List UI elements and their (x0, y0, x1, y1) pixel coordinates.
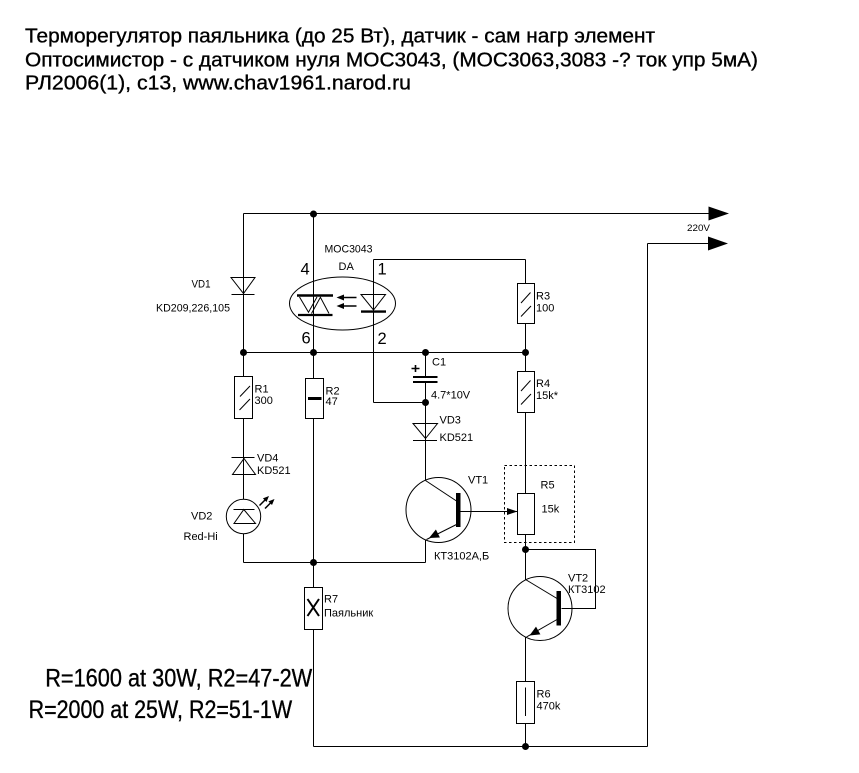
svg-text:РЛ2006(1), с13, www.chav1961.n: РЛ2006(1), с13, www.chav1961.narod.ru (25, 73, 411, 95)
svg-text:Паяльник: Паяльник (324, 608, 373, 620)
svg-text:470k: 470k (537, 701, 561, 713)
svg-text:R5: R5 (541, 480, 555, 492)
svg-text:DA: DA (339, 261, 355, 273)
svg-text:15k: 15k (542, 504, 560, 516)
svg-text:VD1: VD1 (192, 279, 211, 291)
svg-text:R=1600 at 30W, R2=47-2W: R=1600 at 30W, R2=47-2W (45, 665, 312, 693)
svg-text:Red-Hi: Red-Hi (184, 531, 218, 543)
svg-text:Оптосимистор - с датчиком нуля: Оптосимистор - с датчиком нуля MOC3043, … (25, 50, 758, 72)
svg-text:R1: R1 (255, 384, 269, 396)
svg-text:R4: R4 (536, 378, 550, 390)
svg-text:15k*: 15k* (536, 390, 559, 402)
svg-text:КТ3102: КТ3102 (568, 584, 606, 596)
svg-text:R6: R6 (537, 689, 551, 701)
svg-text:R7: R7 (324, 594, 338, 606)
svg-text:47: 47 (326, 396, 338, 408)
svg-text:VT1: VT1 (468, 475, 488, 487)
svg-text:6: 6 (302, 330, 311, 348)
svg-text:VD2: VD2 (191, 511, 212, 523)
svg-text:VD3: VD3 (440, 415, 461, 427)
svg-text:КТ3102А,Б: КТ3102А,Б (434, 551, 489, 563)
svg-text:Терморегулятор паяльника (до 2: Терморегулятор паяльника (до 25 Вт), дат… (25, 26, 655, 48)
svg-text:1: 1 (378, 261, 387, 279)
svg-text:VT2: VT2 (568, 573, 588, 585)
svg-text:KD209,226,105: KD209,226,105 (156, 303, 230, 315)
svg-text:4: 4 (301, 261, 310, 279)
svg-text:KD521: KD521 (440, 432, 474, 444)
svg-text:4.7*10V: 4.7*10V (431, 390, 471, 402)
svg-text:R=2000 at 25W, R2=51-1W: R=2000 at 25W, R2=51-1W (29, 696, 293, 724)
svg-text:220V: 220V (687, 223, 711, 234)
svg-text:100: 100 (536, 303, 554, 315)
svg-text:2: 2 (378, 330, 387, 348)
svg-text:300: 300 (255, 395, 273, 407)
svg-text:VD4: VD4 (257, 453, 278, 465)
svg-text:C1: C1 (432, 357, 446, 369)
svg-text:KD521: KD521 (257, 465, 291, 477)
svg-text:R3: R3 (536, 291, 550, 303)
svg-text:MOC3043: MOC3043 (325, 244, 373, 256)
